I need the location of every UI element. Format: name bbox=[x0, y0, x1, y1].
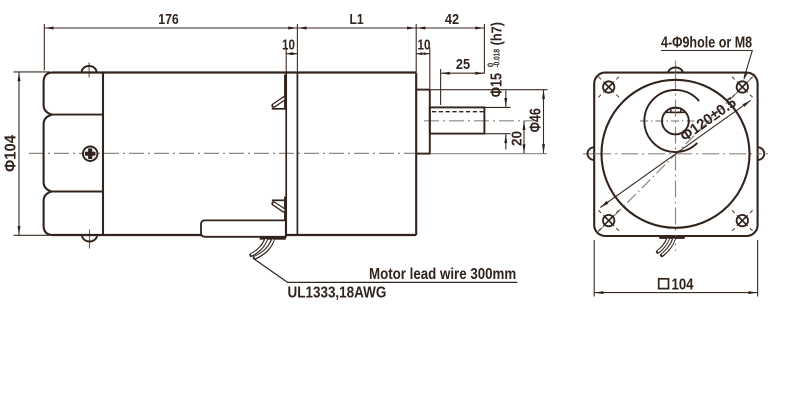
svg-text:42: 42 bbox=[445, 11, 460, 27]
svg-text:25: 25 bbox=[456, 56, 471, 72]
svg-text:Motor lead wire 300mm: Motor lead wire 300mm bbox=[369, 266, 516, 283]
svg-text:Φ46: Φ46 bbox=[526, 108, 544, 132]
svg-text:Φ104: Φ104 bbox=[2, 135, 20, 172]
svg-text:4-Φ9hole or M8: 4-Φ9hole or M8 bbox=[661, 33, 752, 51]
svg-text:L1: L1 bbox=[349, 11, 364, 27]
svg-text:10: 10 bbox=[418, 36, 431, 53]
svg-text:20: 20 bbox=[509, 131, 526, 146]
svg-text:-0.018: -0.018 bbox=[492, 49, 502, 68]
svg-text:UL1333,18AWG: UL1333,18AWG bbox=[288, 285, 387, 302]
svg-text:10: 10 bbox=[282, 36, 295, 53]
svg-text:176: 176 bbox=[158, 11, 179, 27]
svg-text:104: 104 bbox=[672, 276, 694, 293]
svg-text:(h7): (h7) bbox=[487, 22, 504, 45]
svg-text:Φ15: Φ15 bbox=[487, 73, 505, 97]
